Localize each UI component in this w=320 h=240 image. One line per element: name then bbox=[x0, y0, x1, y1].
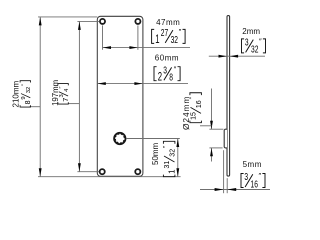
dim dia24mm label (rotated) plain part bbox=[181, 96, 191, 130]
svg-text:16: 16 bbox=[196, 100, 203, 108]
dim 5mm extension line (boss face) bbox=[223, 150, 225, 193]
svg-text:27: 27 bbox=[161, 28, 169, 39]
screw hole top-left bbox=[100, 19, 105, 24]
svg-text:″: ″ bbox=[259, 37, 262, 46]
dim 5mm extension line (plate face) bbox=[226, 178, 228, 193]
screw hole bottom-right bbox=[135, 169, 140, 174]
dim 2mm dimension line + leader bbox=[209, 55, 265, 57]
dim dia24mm dimension line upper segment bbox=[211, 89, 213, 130]
svg-text:″: ″ bbox=[259, 171, 262, 180]
svg-text:32: 32 bbox=[170, 149, 177, 157]
svg-text:3: 3 bbox=[59, 94, 65, 97]
svg-text:2: 2 bbox=[158, 72, 162, 84]
dim 50mm label (rotated) bracket part bbox=[163, 141, 177, 176]
svg-text:″: ″ bbox=[174, 64, 177, 73]
dim 210mm label (rotated) bracket part bbox=[20, 81, 32, 107]
svg-text:3: 3 bbox=[245, 38, 249, 49]
svg-text:5mm: 5mm bbox=[243, 160, 262, 169]
screw hole top-right bbox=[135, 19, 140, 24]
dim dia24mm dimension line lower segment bbox=[211, 148, 213, 162]
dim 50mm dimension line bbox=[177, 139, 179, 177]
svg-text:Ø24mm: Ø24mm bbox=[181, 96, 191, 130]
plate front view outline bbox=[97, 16, 143, 176]
screw hole bottom-left bbox=[100, 169, 105, 174]
svg-text:″: ″ bbox=[21, 84, 27, 86]
dim 50mm leader from boss center bbox=[126, 138, 180, 140]
svg-text:3: 3 bbox=[244, 172, 248, 183]
dim 47mm left extension line bbox=[102, 25, 104, 49]
svg-text:8: 8 bbox=[169, 73, 173, 84]
svg-text:31: 31 bbox=[164, 161, 171, 169]
svg-text:15: 15 bbox=[191, 112, 198, 120]
dim 197mm top extension line bbox=[77, 20, 99, 22]
svg-text:32: 32 bbox=[171, 35, 179, 46]
dim 197mm text connector bbox=[68, 103, 79, 105]
svg-text:16: 16 bbox=[251, 179, 259, 190]
side view boss profile bbox=[224, 129, 227, 148]
svg-text:3: 3 bbox=[163, 65, 167, 76]
svg-text:210mm: 210mm bbox=[11, 80, 20, 107]
dim 47mm dimension line + leader bbox=[103, 47, 191, 49]
svg-text:32: 32 bbox=[251, 45, 259, 56]
dim dia24mm text connector bbox=[200, 125, 212, 127]
dim 210mm dimension line bbox=[39, 17, 41, 177]
dim 210mm label (rotated) plain part bbox=[11, 80, 20, 107]
svg-text:2mm: 2mm bbox=[242, 27, 260, 36]
svg-text:50mm: 50mm bbox=[151, 142, 160, 165]
dim 197mm bottom extension line bbox=[77, 171, 99, 173]
dim dia24mm label (rotated) bracket part bbox=[189, 93, 203, 123]
svg-text:″: ″ bbox=[59, 87, 65, 89]
dim dia24mm top extension line bbox=[209, 128, 223, 130]
svg-text:60mm: 60mm bbox=[155, 54, 179, 63]
dim 197mm label (rotated) plain part bbox=[51, 80, 60, 106]
svg-text:1: 1 bbox=[168, 169, 177, 174]
dim 210mm text connector bbox=[30, 106, 41, 108]
knurled cylinder boss (front view) bbox=[115, 133, 126, 144]
dim 5mm dimension line + leader bbox=[200, 189, 270, 191]
dim 210mm top extension line bbox=[38, 16, 97, 18]
svg-text:47mm: 47mm bbox=[156, 18, 180, 27]
dim 47mm right extension line bbox=[137, 25, 139, 49]
svg-text:9: 9 bbox=[21, 96, 27, 99]
dim 197mm label (rotated) bracket part bbox=[58, 84, 70, 105]
shared bottom extension line bbox=[38, 176, 181, 178]
svg-text:″: ″ bbox=[179, 27, 182, 36]
dim 197mm dimension line bbox=[78, 21, 80, 171]
svg-text:32: 32 bbox=[26, 87, 32, 93]
svg-text:1: 1 bbox=[155, 34, 159, 46]
dim 60mm dimension line + leader bbox=[97, 83, 188, 85]
dim 50mm label (rotated) plain part bbox=[151, 142, 160, 165]
svg-text:8: 8 bbox=[23, 100, 32, 104]
plate side view bar bbox=[227, 16, 230, 177]
dim dia24mm bottom extension line bbox=[209, 147, 222, 149]
